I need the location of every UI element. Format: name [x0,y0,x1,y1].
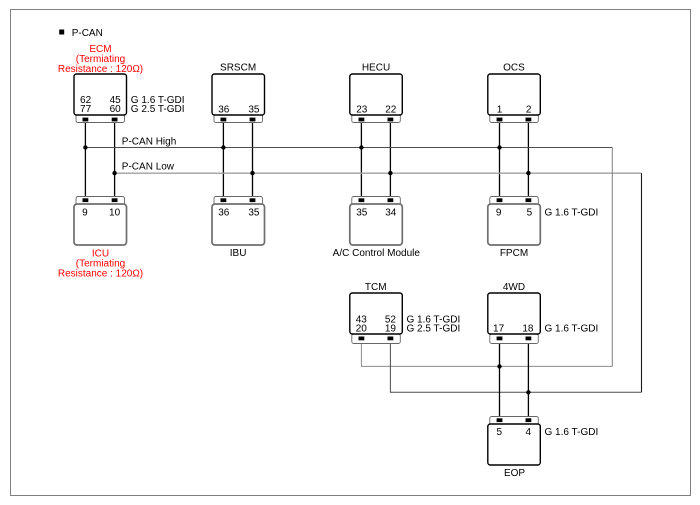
pin terminal right of TCM [388,337,394,341]
svg-text:G 1.6 T-GDI: G 1.6 T-GDI [545,207,599,218]
pin terminal right of ECM [112,118,118,122]
module FPCM [488,197,541,246]
svg-text:A/C Control Module: A/C Control Module [333,248,421,259]
wire OCS pin 2 to FPCM pin 5 [527,119,529,200]
body of module HECU [350,74,403,115]
node junction SRSCM Low [250,171,254,175]
pin terminal left of A/C Control Module [359,198,365,202]
module SRSCM [212,74,265,123]
node junction HECU High [359,145,363,149]
svg-text:G 1.6 T-GDI: G 1.6 T-GDI [545,427,599,438]
svg-text:G 2.5 T-GDI: G 2.5 T-GDI [407,324,461,335]
svg-text:20: 20 [356,324,368,335]
module EOP [488,417,541,466]
P-CAN Low bus line [115,172,642,174]
svg-text:35: 35 [248,207,260,218]
wire 4WD pin 18 down to EOP pin 4 [527,338,529,420]
body of module IBU [212,204,265,245]
node junction 4WD Low [526,390,530,394]
node junction ECM High [83,145,87,149]
wire OCS pin 1 to FPCM pin 9 [499,119,501,200]
svg-text:10: 10 [109,207,121,218]
connector strip of 4WD [490,334,539,344]
pin terminal left of ICU [83,198,89,202]
module ECM [74,74,127,123]
connector strip of EOP [490,417,539,427]
pin terminal right of HECU [388,118,394,122]
svg-text:P-CAN High: P-CAN High [122,137,176,148]
pin terminal right of ICU [112,198,118,202]
svg-text:17: 17 [493,324,505,335]
svg-text:4WD: 4WD [503,282,525,293]
module ICU [74,197,127,246]
svg-text:IBU: IBU [230,248,247,259]
svg-text:19: 19 [385,324,397,335]
body of module TCM [350,293,403,334]
pin terminal left of EOP [497,418,503,422]
connector strip of A/C Control Module [352,197,401,207]
module TCM [350,293,403,344]
svg-text:G 2.5 T-GDI: G 2.5 T-GDI [131,104,185,115]
svg-text:Resistance : 120Ω): Resistance : 120Ω) [58,268,143,279]
svg-text:G 1.6 T-GDI: G 1.6 T-GDI [545,324,599,335]
body of module EOP [488,424,541,465]
node junction HECU Low [388,171,392,175]
node junction ECM Low [112,171,116,175]
node junction SRSCM High [221,145,225,149]
pin terminal left of TCM [359,337,365,341]
pin terminal right of FPCM [526,198,532,202]
connector strip of FPCM [490,197,539,207]
svg-text:4: 4 [526,427,532,438]
svg-text:23: 23 [356,105,368,116]
svg-text:P-CAN: P-CAN [72,28,103,39]
wire 4WD pin 17 down to EOP pin 5 [499,338,501,420]
svg-text:P-CAN Low: P-CAN Low [122,162,175,173]
pin terminal right of IBU [250,198,256,202]
header bullet [59,30,64,35]
svg-text:OCS: OCS [503,63,525,74]
wire SRSCM pin 36 to IBU pin 36 [222,119,224,200]
svg-text:Resistance : 120Ω): Resistance : 120Ω) [58,64,143,75]
connector strip of ECM [76,113,125,123]
body of module ECM [74,74,127,115]
module HECU [350,74,403,123]
svg-text:FPCM: FPCM [500,248,528,259]
P-CAN High bus line [85,147,612,149]
svg-text:SRSCM: SRSCM [220,63,256,74]
svg-text:60: 60 [110,104,122,115]
pin terminal left of 4WD [497,337,503,341]
svg-text:77: 77 [80,104,92,115]
pin terminal right of EOP [526,418,532,422]
module IBU [212,197,265,246]
connector strip of ICU [76,197,125,207]
svg-text:HECU: HECU [362,63,390,74]
P-CAN High vertical return wire [611,148,613,367]
body of module OCS [488,74,541,115]
svg-text:36: 36 [218,105,230,116]
connector strip of HECU [352,113,401,123]
pin terminal left of ECM [83,118,89,122]
node junction 4WD High [497,364,501,368]
svg-text:2: 2 [526,105,532,116]
pin terminal left of FPCM [497,198,503,202]
P-CAN Low vertical return wire [641,173,643,392]
svg-text:18: 18 [522,324,534,335]
pin terminal left of OCS [497,118,503,122]
node junction OCS High [497,145,501,149]
svg-text:9: 9 [496,207,502,218]
node junction OCS Low [526,171,530,175]
module 4WD [488,293,541,344]
body of module ICU [74,204,127,245]
pin terminal left of SRSCM [221,118,227,122]
pin terminal right of SRSCM [250,118,256,122]
connector strip of OCS [490,113,539,123]
pin terminal left of IBU [221,198,227,202]
connector strip of TCM [352,334,401,344]
P-CAN Low branch: TCM pin 52/19 down and right to Low return [390,339,641,392]
module OCS [488,74,541,123]
wire ECM pin 62/77 to ICU pin 9 [84,119,86,200]
svg-text:EOP: EOP [504,468,525,479]
body of module A/C Control Module [350,204,403,245]
pin terminal right of 4WD [526,337,532,341]
body of module SRSCM [212,74,265,115]
label ECM (red) [58,44,143,75]
pin terminal left of HECU [359,118,365,122]
connector strip of SRSCM [214,113,263,123]
wire ECM pin 45/60 to ICU pin 10 [114,119,116,200]
P-CAN High branch: TCM pin 43/20 down and right to High return [361,339,612,366]
module A/C Control Module [350,197,403,246]
body of module 4WD [488,293,541,334]
svg-text:34: 34 [385,207,397,218]
svg-text:35: 35 [356,207,368,218]
wire HECU pin 22 to A/C pin 34 [389,119,391,200]
connector strip of IBU [214,197,263,207]
pin terminal right of OCS [526,118,532,122]
label ICU (red) [58,249,143,280]
wire SRSCM pin 35 to IBU pin 35 [252,119,254,200]
svg-text:22: 22 [385,105,397,116]
svg-text:5: 5 [497,427,503,438]
svg-text:36: 36 [218,207,230,218]
pin terminal right of A/C Control Module [388,198,394,202]
wire HECU pin 23 to A/C pin 35 [360,119,362,200]
svg-text:9: 9 [82,207,88,218]
svg-text:TCM: TCM [365,282,387,293]
svg-text:5: 5 [527,207,533,218]
body of module FPCM [488,204,541,245]
svg-text:1: 1 [497,105,503,116]
svg-text:35: 35 [248,105,260,116]
